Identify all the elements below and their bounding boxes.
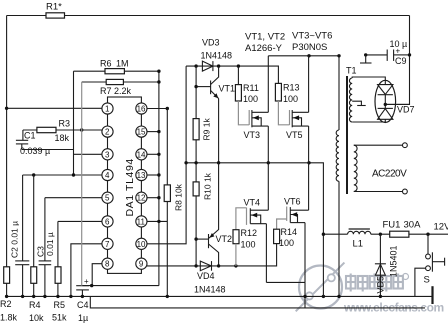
svg-text:1: 1 [105,105,110,114]
svg-text:VT2: VT2 [216,234,233,244]
svg-text:1µ: 1µ [78,313,88,323]
resistor R2 [0,267,18,323]
pin 13 [136,169,147,180]
svg-text:0.039 µ: 0.039 µ [20,146,50,156]
svg-text:VD5: VD5 [376,276,386,294]
pin 11 [136,216,147,227]
wire VT3 source / VT4 drain [267,126,269,210]
svg-text:VT4: VT4 [244,198,261,208]
watermark chinese text 电子发烧友 [346,274,409,292]
pin 2 [102,126,113,137]
pin 1 [102,103,113,114]
pin 9 [136,258,147,269]
resistor R4 [29,175,44,323]
resistor R1 [46,2,65,19]
node R11 junction [237,64,240,67]
svg-text:R4: R4 [29,300,41,310]
resistor R9 [193,118,211,141]
svg-text:0.01 µ: 0.01 µ [45,232,55,256]
wire upper gate drive rail [186,66,278,83]
fuse FU1 [383,220,422,238]
svg-text:VT5: VT5 [286,130,303,140]
svg-text:R6: R6 [100,59,112,69]
svg-text:S: S [424,275,430,286]
capacitor C4 [76,277,89,323]
wire feedback chain pins 15,14,13,12,11 [158,71,160,285]
wire drain rail to T1 [268,56,339,130]
svg-text:AC220V: AC220V [372,169,407,180]
svg-text:VT6: VT6 [284,197,301,207]
bottom ground rail wire [7,295,433,297]
wire switch to battery minus [415,268,426,296]
wire VT5 source / VT6 drain [308,126,310,210]
svg-text:C9: C9 [395,56,407,66]
svg-text:100: 100 [283,94,298,104]
resistor R14 [274,227,297,248]
node VD4 anode junction [194,264,197,267]
resistor R6 [74,59,159,74]
wire C1 bottom to pin3 net [22,149,74,151]
svg-text:12V: 12V [434,222,448,233]
wire VD7 mid to right rail [385,103,409,105]
wire VT2 base [196,238,208,240]
T1 output winding AC220V [354,145,357,191]
svg-text:1.8k: 1.8k [0,313,18,323]
watermark logo circle [296,263,345,312]
wire pin8/C4 rail [82,285,158,287]
svg-text:L1: L1 [353,239,364,250]
IC DA1 TL494 body [108,97,142,273]
svg-text:1N4148: 1N4148 [194,285,226,295]
wire pin12 [147,197,159,199]
svg-text:+: + [396,47,401,56]
chain junction dots [157,70,160,73]
wire VT5 drain up [308,56,310,113]
top +12V rail wire [7,15,410,17]
pin 8 [102,258,113,269]
svg-text:1M: 1M [116,59,129,69]
wire VT6 source down [304,223,306,283]
svg-text:DA1 TL494: DA1 TL494 [124,158,136,216]
wire pin15 [147,131,159,133]
node pin2 junction [80,128,83,131]
svg-text:100: 100 [279,238,294,248]
svg-text:6: 6 [105,217,110,226]
capacitor C1 [16,130,50,156]
svg-text:10: 10 [137,240,146,249]
svg-text:R12: R12 [241,228,258,238]
svg-text:R2: R2 [0,299,12,309]
resistor R13 [275,83,299,105]
wire pin16 [147,108,167,110]
label VT1 VT2 type [245,32,285,55]
wire pin8 to C4 [92,264,102,286]
pin 16 [136,103,147,114]
svg-text:11: 11 [137,217,146,226]
svg-text:FU1: FU1 [383,220,401,231]
wire R9/R10 chain [195,66,197,266]
resistor R12 [233,228,257,266]
transformer T1 [336,66,407,299]
capacitor C2 [10,175,30,296]
node VD3 anode junction [194,64,197,67]
svg-text:1N5401: 1N5401 [389,245,399,277]
wire VT4 source down [265,224,267,283]
svg-text:R13: R13 [283,83,300,93]
wire 12V feed rail [323,233,448,235]
node VT2 collector junction [217,264,220,267]
node pin16 junction [166,107,169,110]
svg-text:VT1: VT1 [219,84,236,94]
svg-text:R10 1k: R10 1k [203,172,213,200]
svg-text:C2 0.01 µ: C2 0.01 µ [10,221,20,258]
svg-text:R7 2.2k: R7 2.2k [100,86,132,96]
wire VT1 base [196,86,211,88]
svg-text:13: 13 [137,171,146,180]
resistor R8 [164,109,183,297]
T1 primary winding [349,78,352,122]
+12V terminal bar at C9 [360,53,372,63]
wire AC output top [354,144,403,146]
svg-text:2: 2 [105,128,110,137]
svg-text:VT3: VT3 [244,130,261,140]
wire primary top to VD7 [352,77,385,80]
pin 10 [136,238,147,249]
wire pin5 [45,197,102,199]
node pin1 junction [5,107,8,110]
transistor VT2 [209,163,233,266]
svg-text:R3: R3 [59,119,71,129]
svg-text:VD3: VD3 [202,38,220,48]
resistor R3 [37,119,70,144]
svg-text:R8 10k: R8 10k [174,183,184,211]
diode VD5 [375,234,399,296]
mosfet VT4 [236,198,268,230]
resistor R5 [52,221,67,322]
wire VT3 drain up [267,56,269,113]
svg-text:C1: C1 [24,131,36,141]
node R12 junction [234,264,237,267]
transistor VT1 [211,66,235,98]
pin 6 [102,216,113,227]
svg-text:100: 100 [243,94,258,104]
svg-text:R5: R5 [54,300,66,310]
svg-text:VD7: VD7 [397,105,415,115]
svg-text:R1*: R1* [46,2,62,13]
diode VD3 [201,38,233,72]
T1 core [346,76,348,194]
svg-text:+: + [84,277,89,286]
svg-text:51k: 51k [52,313,67,323]
wire VT1 emitter down [218,99,220,163]
svg-text:30A: 30A [404,220,422,231]
diode VD4 [194,261,226,294]
mosfet VT3 [238,101,268,140]
svg-text:18k: 18k [55,133,70,143]
mosfet VT5 [278,101,308,140]
svg-text:A1266-Y: A1266-Y [245,43,283,54]
svg-text:4: 4 [105,171,110,180]
svg-text:R11: R11 [243,83,259,93]
svg-text:16: 16 [137,105,146,114]
resistor R7 [82,79,159,96]
wire pin3/R6 vertical net [73,71,75,175]
T1 secondary winding [336,130,339,181]
wire pin3 [74,153,102,155]
diode assembly VD7 [375,80,415,122]
left rail wire [6,16,8,297]
svg-text:15: 15 [137,128,146,137]
svg-text:1N4148: 1N4148 [201,51,233,61]
svg-text:R14: R14 [281,227,298,237]
pin 5 [102,192,113,203]
node VT1 collector junction [217,64,220,67]
pin 3 [102,149,113,160]
svg-text:T1: T1 [346,66,357,76]
wire pin10 up to VD3 anode [147,66,186,244]
switch S [424,234,445,285]
svg-text:12: 12 [137,194,146,203]
resistor R11 [235,66,258,104]
svg-text:14: 14 [137,150,146,159]
capacitor C3 [36,198,56,297]
wire pin11 [147,220,167,222]
label VT3-VT6 type [292,31,332,54]
node pin4-R4 junction [32,173,35,176]
wire pin9 / lower drive rail [147,244,277,266]
svg-text:VD4: VD4 [197,271,215,281]
wire AC output bottom [354,191,403,193]
svg-text:C3: C3 [36,246,46,257]
resistor R10 [193,172,212,200]
svg-text:7: 7 [105,240,110,249]
second bottom return wire [90,296,425,308]
node 12V rail down junction [322,295,325,298]
svg-text:5: 5 [105,194,110,203]
wire 12V mid rail [186,163,323,234]
svg-text:C4: C4 [77,300,89,310]
wire pin4 [23,174,102,176]
wire pin6 [58,220,102,222]
svg-text:R9 1k: R9 1k [202,118,212,141]
wire pin14 [147,153,159,155]
wire pin2 / R3 net [23,129,102,131]
svg-text:VT1, VT2: VT1, VT2 [245,32,285,43]
inductor L1 [348,229,371,250]
battery terminal bar [431,286,433,304]
node C4 junction [90,284,93,287]
wire source rail to ground [266,282,305,308]
svg-text:VT3~VT6: VT3~VT6 [292,31,332,42]
svg-text:9: 9 [139,260,144,269]
pin 15 [136,126,147,137]
pin 14 [136,149,147,160]
pin 7 [102,238,113,249]
svg-text:8: 8 [105,260,110,269]
wire pin13 [147,174,159,176]
wire R7 to pin2 to C4 gray vertical [81,82,83,286]
svg-text:3: 3 [105,150,110,159]
ground rail junction dots [5,295,8,298]
right rail wire down to C9/VD7 [385,16,409,105]
node pin4-R6net junction [72,173,75,176]
wire secondary bottom to ground [338,181,340,296]
T1 center tap terminal [352,101,361,105]
svg-text:10k: 10k [29,313,44,323]
svg-text:100: 100 [241,240,256,250]
wire pin7 to ground [71,244,102,297]
pin 4 [102,169,113,180]
wire pin1 to left rail [7,107,102,109]
mosfet VT6 [277,197,309,230]
capacitor C9 [366,39,410,66]
wire primary bottom to VD7 [352,121,385,123]
svg-text:P30N0S: P30N0S [292,42,327,53]
pin 12 [136,192,147,203]
